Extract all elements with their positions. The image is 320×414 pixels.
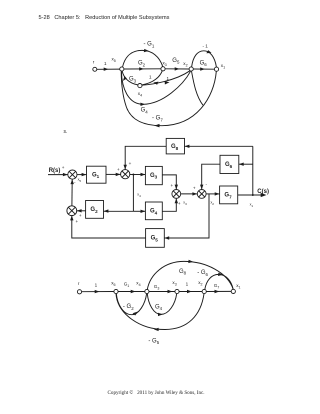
wire summer2 to G3: [130, 174, 146, 176]
arrow G8: [188, 260, 193, 263]
svg-text:G5: G5: [151, 236, 159, 243]
svg-text:- G6: - G6: [197, 270, 208, 277]
svg-text:G3: G3: [129, 77, 137, 84]
junction dot x4: [132, 174, 134, 176]
arrow G4: [140, 103, 145, 106]
arrow G7: [215, 290, 220, 293]
arrow into G4: [141, 210, 146, 213]
node x2: [189, 67, 193, 71]
svg-text:+: +: [62, 165, 65, 170]
svg-text:s.: s.: [64, 129, 68, 135]
svg-text:- G7: - G7: [152, 116, 163, 123]
junction dot x1: [252, 194, 254, 196]
arrow -G2: [133, 311, 139, 315]
wire G7 to C(s): [238, 194, 263, 196]
branch G4 arc x4 to x3 below: [147, 294, 176, 315]
svg-text:G7: G7: [224, 193, 232, 200]
svg-text:G4: G4: [155, 305, 163, 312]
svg-text:1: 1: [104, 61, 107, 66]
arrow into summer1: [63, 173, 68, 176]
arrow G5: [175, 67, 180, 70]
wire x2 to x1 (G6): [193, 68, 214, 70]
block G8: [166, 138, 184, 154]
arrow into summer3 bottom: [70, 216, 73, 221]
wire x5 to x3 (G2): [124, 68, 161, 70]
wire G1 to summer2: [106, 173, 121, 175]
summer S3: [67, 206, 77, 216]
arrow 1 x3-x4: [153, 82, 158, 85]
svg-text:1: 1: [149, 74, 152, 79]
wire summer1 to G1: [77, 174, 86, 176]
svg-text:- 1: - 1: [203, 43, 209, 48]
arrow into G8: [185, 145, 190, 148]
svg-text:G5: G5: [172, 58, 180, 65]
arrow G4: [158, 313, 163, 316]
svg-text:- G1: - G1: [144, 42, 155, 49]
svg-text:- G5: - G5: [148, 338, 159, 345]
arrow into summer5: [192, 192, 197, 195]
arrow into summer4 bottom: [175, 198, 178, 203]
summer S4: [172, 190, 181, 199]
arrow -G6: [218, 273, 223, 276]
svg-text:G3: G3: [150, 173, 158, 180]
block G3: [145, 166, 162, 184]
svg-text:+: +: [171, 183, 174, 188]
arrow into G3: [141, 173, 146, 176]
node x4: [138, 84, 142, 88]
wire G3 to summer4: [162, 175, 176, 190]
node r: [77, 290, 81, 294]
node x1: [231, 289, 235, 293]
arrow into G5 right: [164, 236, 169, 239]
wire summer5 to G7: [206, 193, 219, 195]
arrow -G5: [154, 328, 159, 331]
branch -G5 arc x2 to x5 below: [116, 294, 204, 330]
svg-text:G2: G2: [90, 207, 98, 214]
node x4: [145, 289, 149, 293]
branch 1 x4 to x2: [142, 71, 190, 85]
wire summer4 to summer5: [181, 193, 198, 195]
summer S5: [197, 190, 206, 199]
arrow into G7: [215, 192, 220, 195]
svg-text:G8: G8: [179, 269, 187, 276]
branch gain 1 arrow r-x5: [104, 68, 109, 71]
svg-text:+: +: [129, 161, 132, 166]
svg-text:+: +: [193, 185, 196, 190]
arrow G3: [123, 76, 127, 81]
branch G4 arc x5 to x2: [121, 71, 190, 104]
node x2: [202, 289, 206, 293]
svg-text:- G2: - G2: [123, 304, 134, 311]
node x3: [175, 289, 179, 293]
svg-text:G1: G1: [92, 172, 100, 179]
svg-text:G8: G8: [171, 144, 179, 151]
arrow into summer4 top: [175, 185, 178, 190]
branch -1 arc x2 to x1: [192, 51, 217, 67]
wire x3 to x2 (G5): [165, 68, 189, 70]
svg-text:1: 1: [167, 76, 170, 81]
wire G8 to summer2 top: [125, 146, 166, 169]
wire r to x5: [82, 291, 114, 293]
svg-text:G6: G6: [225, 162, 233, 169]
arrow -G7: [154, 124, 159, 128]
wire x3 to x2 (1): [179, 291, 202, 293]
arrow G6: [200, 67, 205, 70]
svg-text:G4: G4: [141, 108, 149, 115]
wire x4 to x3 (G3): [149, 291, 175, 293]
node r: [93, 67, 97, 71]
wire x2 down-stroke joining bottom arcs: [192, 71, 204, 105]
summer S1: [68, 170, 77, 179]
arrow -G1: [144, 49, 149, 52]
block G5: [146, 229, 165, 248]
svg-text:1: 1: [186, 281, 189, 286]
arrow into summer2: [116, 173, 121, 176]
wire G4 to summer4: [162, 198, 176, 211]
arrow into G2 right: [104, 209, 109, 212]
svg-text:G6: G6: [200, 60, 208, 67]
branch G8 arc x4 to x1: [147, 261, 233, 289]
branch -G7 arc x1 to x5: [121, 71, 216, 125]
arrow 1 r-x5: [95, 290, 100, 293]
svg-text:R(s): R(s): [49, 168, 61, 174]
summer S2: [121, 170, 130, 179]
arrow into summer2 top: [124, 165, 127, 170]
node x1: [214, 67, 218, 71]
output arrowhead: [261, 193, 267, 197]
arrow into summer1 bottom: [71, 179, 74, 184]
wire x2 takeoff down to G5: [164, 194, 209, 238]
svg-text:C(s): C(s): [257, 189, 269, 195]
arrow 1 x4-x2: [165, 81, 170, 84]
block G2: [86, 201, 104, 219]
arrow into summer5 top: [200, 185, 203, 190]
wire G2 to summer3: [77, 210, 86, 212]
wire x2 to x1 (G7): [206, 290, 231, 292]
wire top to G8 right: [185, 145, 253, 147]
node x3: [161, 67, 165, 71]
branch G3 x5 to x4: [122, 71, 138, 85]
wire G6 to summer5: [202, 164, 220, 189]
arrow G1: [131, 290, 136, 293]
branch 1 x3 to x4: [142, 71, 162, 85]
arrow into G6: [239, 163, 244, 166]
svg-text:G4: G4: [150, 209, 158, 216]
svg-text:Copyright © 2011 by John Wil: Copyright © 2011 by John Wiley & Sons, I…: [108, 389, 205, 396]
branch -G1 arc x5 to x3: [123, 50, 163, 67]
wire x5 to x4 (G1): [118, 291, 145, 293]
wire to G6 right: [239, 163, 253, 165]
node x5: [114, 289, 118, 293]
wire R to summer1: [48, 174, 68, 176]
block G4: [145, 202, 162, 220]
svg-text:1: 1: [95, 282, 98, 287]
arrow into summer3: [77, 209, 82, 212]
arrow G3: [168, 290, 173, 293]
block G7: [220, 186, 238, 204]
arrow -1: [206, 50, 211, 53]
wire summer3 up to summer1: [71, 179, 73, 206]
block G1: [87, 166, 107, 183]
arrow 1 x3-x2: [187, 290, 192, 293]
svg-text:+: +: [76, 219, 79, 224]
wire x4 row to G4: [133, 210, 145, 212]
block G6: [220, 155, 239, 173]
svg-text:+: +: [178, 201, 181, 206]
feedback vertical from x1: [252, 146, 254, 195]
wire r to x5: [97, 68, 120, 70]
svg-text:5-28 Chapter 5: Reduction: 5-28 Chapter 5: Reduction of Multiple Su…: [39, 15, 170, 21]
svg-text:+: +: [117, 167, 120, 172]
node x5: [120, 67, 124, 71]
svg-text:G2: G2: [138, 61, 146, 68]
takeoff wire x4 down: [132, 175, 134, 212]
branch -G6 arc x2 to x1: [205, 274, 233, 289]
arrow G2: [139, 67, 144, 70]
svg-text:+: +: [79, 213, 82, 218]
branch -G2 arc x4 to x5 below: [116, 294, 146, 315]
wire x4 row to G2: [104, 210, 134, 212]
arrow into G1: [82, 173, 87, 176]
wire G5 to summer3 bottom: [72, 216, 146, 238]
